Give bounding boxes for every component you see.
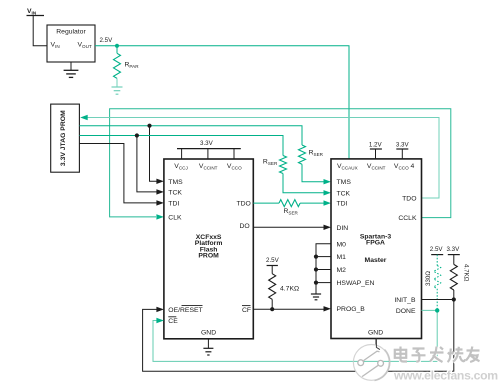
svg-text:DIN: DIN xyxy=(337,225,349,232)
svg-text:3.3V: 3.3V xyxy=(396,142,410,149)
wire TMS drop to PROM TMS xyxy=(150,126,157,182)
node junction HSWAP_EN xyxy=(314,281,318,285)
resistor RSER on TDO-TDI xyxy=(279,200,300,216)
node junction TMS drop xyxy=(147,124,151,128)
svg-text:M2: M2 xyxy=(337,267,347,274)
svg-text:OE/RESET: OE/RESET xyxy=(168,307,202,314)
svg-text:3.3V: 3.3V xyxy=(447,246,461,253)
node junction DONE/pullup xyxy=(435,308,439,312)
label 2.5V regulator output xyxy=(100,37,114,44)
node junction INIT_B/pullup xyxy=(452,297,456,301)
node VIN rail xyxy=(27,8,45,16)
svg-text:TDI: TDI xyxy=(337,201,348,208)
supply bar CF pullup xyxy=(267,266,278,274)
wire RSER to FPGA TMS xyxy=(302,164,324,182)
wire RSER to FPGA TCK xyxy=(283,174,324,193)
ground below mode bus xyxy=(311,294,321,300)
wire TDI from header to PROM TDI xyxy=(79,144,156,203)
wire FPGA INIT_B to pullup and PROM OE/RESET xyxy=(143,290,454,371)
svg-text:TCK: TCK xyxy=(168,189,182,196)
JTAG cable header 3.3V JTAG PROM xyxy=(51,104,80,172)
arrow into FPGA PROG_B xyxy=(324,306,332,311)
resistor 4.7K CF pullup xyxy=(269,274,299,310)
svg-text:CLK: CLK xyxy=(168,214,182,221)
node junction CF/pullup xyxy=(270,307,274,311)
label 1.2V VCCINT xyxy=(369,142,383,149)
resistor RSER on TCK xyxy=(263,156,287,174)
svg-text:GND: GND xyxy=(201,330,216,337)
svg-text:M1: M1 xyxy=(337,254,347,261)
svg-text:TMS: TMS xyxy=(337,179,352,186)
svg-text:Master: Master xyxy=(365,257,387,264)
wire VIN to regulator input xyxy=(33,16,47,46)
resistor 330 ohm DONE pullup dashed xyxy=(425,255,441,311)
supply bar INIT_B pullup xyxy=(448,255,460,265)
svg-text:PROM: PROM xyxy=(198,253,219,260)
svg-text:www.elecfans.com: www.elecfans.com xyxy=(393,369,498,383)
label 2.5V CF pullup xyxy=(266,257,280,264)
label 3.3V VCCO xyxy=(396,142,410,149)
ground below regulator xyxy=(64,62,79,77)
svg-text:Regulator: Regulator xyxy=(56,29,86,36)
arrow into PROM TCK xyxy=(156,189,164,194)
regulator U1 xyxy=(47,25,95,62)
svg-text:RSER: RSER xyxy=(284,208,299,216)
svg-text:DO: DO xyxy=(240,223,250,230)
arrow into FPGA DIN xyxy=(324,225,332,230)
svg-text:M0: M0 xyxy=(337,241,347,248)
svg-text:4.7KΩ: 4.7KΩ xyxy=(280,286,299,293)
ground below RPAR xyxy=(112,78,123,94)
svg-text:RPAR: RPAR xyxy=(125,62,140,70)
supply bar VCCINT xyxy=(370,149,382,159)
arrow TDO into JTAG header xyxy=(80,115,88,120)
watermark logo xyxy=(353,339,389,381)
watermark chinese text dianzifashaoyou xyxy=(395,347,480,363)
wire mode pins M0 M1 M2 HSWAP_EN bus xyxy=(316,244,331,294)
svg-text:INIT_B: INIT_B xyxy=(394,297,416,304)
svg-text:RSER: RSER xyxy=(309,150,324,158)
arrow into PROM CLK xyxy=(156,214,164,219)
svg-text:TDO: TDO xyxy=(402,195,416,202)
wire PROM DO to FPGA DIN xyxy=(253,226,324,228)
svg-text:CF: CF xyxy=(242,307,251,314)
supply bar VCCO xyxy=(396,149,408,159)
wire TMS net from header xyxy=(79,126,302,145)
node junction TCK drop xyxy=(135,133,139,137)
resistor 4.7K INIT_B pullup xyxy=(450,264,469,290)
supply bar DONE pullup xyxy=(431,254,443,256)
wire RSER to FPGA TDI xyxy=(300,202,324,204)
wire PROM TDO to RSER xyxy=(253,202,279,204)
node junction M2 xyxy=(314,267,318,271)
svg-text:TDI: TDI xyxy=(168,200,179,207)
label 3.3V INIT_B pullup xyxy=(447,246,461,253)
svg-text:VIN: VIN xyxy=(27,8,37,16)
wire FPGA DONE to PROM CE xyxy=(153,310,437,361)
svg-text:1.2V: 1.2V xyxy=(369,142,383,149)
svg-text:TDO: TDO xyxy=(237,201,251,208)
ground below FPGA xyxy=(371,339,381,355)
arrow into FPGA TDI xyxy=(324,200,332,205)
svg-text:PROG_B: PROG_B xyxy=(337,306,366,313)
node junction M1 xyxy=(314,255,318,259)
resistor RPAR xyxy=(114,46,140,79)
arrow into FPGA TMS xyxy=(324,179,332,184)
arrow into FPGA TCK xyxy=(324,190,332,195)
svg-text:3.3V JTAG PROM: 3.3V JTAG PROM xyxy=(60,110,67,166)
svg-text:2.5V: 2.5V xyxy=(266,257,280,264)
svg-text:FPGA: FPGA xyxy=(366,240,385,247)
wire PROM CF to FPGA PROG_B xyxy=(253,308,324,310)
wire 2.5V rail from VOUT to FPGA VCCAUX xyxy=(95,46,349,159)
FPGA U3 Spartan-3 xyxy=(331,159,422,339)
wire TCK drop to PROM TCK xyxy=(137,136,157,192)
resistor RSER on TMS xyxy=(299,145,324,164)
watermark url www.elecfans.com xyxy=(393,369,498,383)
svg-text:3.3V: 3.3V xyxy=(200,140,214,147)
svg-text:330Ω: 330Ω xyxy=(425,271,432,286)
PROM U2 XCFxxS xyxy=(164,159,253,339)
svg-text:GND: GND xyxy=(368,330,383,337)
label 2.5V DONE pullup xyxy=(430,246,444,253)
wire TCK net from header xyxy=(79,136,283,156)
svg-text:CE: CE xyxy=(168,318,178,325)
svg-text:RSER: RSER xyxy=(263,159,278,167)
arrow into PROM OE/RESET xyxy=(156,307,164,312)
wire CCLK net: FPGA CCLK to PROM CLK xyxy=(110,109,451,218)
svg-text:DONE: DONE xyxy=(396,308,416,315)
svg-text:TCK: TCK xyxy=(337,190,351,197)
svg-text:2.5V: 2.5V xyxy=(430,246,444,253)
ground below PROM xyxy=(203,339,213,355)
arrow into PROM TMS xyxy=(156,179,164,184)
arrow into PROM CE xyxy=(156,318,164,323)
node junction 2.5V/RPAR xyxy=(115,44,119,48)
3.3V supply bar above PROM xyxy=(177,140,241,159)
svg-text:TMS: TMS xyxy=(168,179,183,186)
arrow into PROM TDI xyxy=(156,200,164,205)
wire TDO return: FPGA TDO to JTAG header xyxy=(86,118,439,199)
svg-text:4.7KΩ: 4.7KΩ xyxy=(463,264,470,282)
svg-text:CCLK: CCLK xyxy=(398,215,417,222)
svg-text:2.5V: 2.5V xyxy=(100,37,114,44)
svg-text:HSWAP_EN: HSWAP_EN xyxy=(337,280,375,287)
